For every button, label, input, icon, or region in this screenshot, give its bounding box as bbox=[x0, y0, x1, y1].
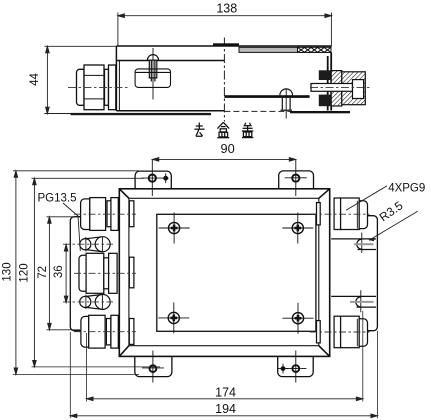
right base flange (section, thick) bbox=[290, 111, 350, 113]
dimension 194 bbox=[70, 331, 377, 418]
section cut line bbox=[223, 38, 225, 122]
lid section grey strip bbox=[239, 47, 331, 52]
plate screw (section) bbox=[280, 89, 293, 119]
hidden bottom edge (dashed) bbox=[224, 110, 290, 112]
box bottom line bbox=[116, 110, 224, 112]
box left wall inner bbox=[118, 61, 120, 111]
terminal block (side view) bbox=[135, 69, 170, 88]
char 去 bbox=[194, 123, 204, 137]
left bracket plate bbox=[70, 217, 81, 331]
dimension 36 bbox=[64, 245, 68, 303]
left gland centerline bbox=[68, 86, 130, 88]
screw bottom-left bbox=[158, 302, 189, 333]
dimension 174 bbox=[87, 311, 363, 402]
svg-text:4XPG9: 4XPG9 bbox=[388, 183, 425, 195]
char 盒 bbox=[217, 122, 229, 137]
lid screws (4) bbox=[158, 213, 313, 334]
dimension 138 bbox=[118, 13, 332, 47]
char 盖 bbox=[242, 123, 253, 138]
svg-text:130: 130 bbox=[2, 262, 14, 281]
mounting tabs bbox=[135, 160, 314, 383]
tab top-left bbox=[135, 171, 171, 189]
svg-text:194: 194 bbox=[215, 402, 236, 416]
wall bosses (dark section) bbox=[319, 70, 331, 80]
svg-text:138: 138 bbox=[216, 2, 237, 16]
screw top-right bbox=[282, 213, 313, 244]
dimension 120 bbox=[32, 178, 161, 367]
outer box outline bbox=[119, 189, 329, 357]
right cable gland (section) bbox=[311, 71, 365, 106]
left base flange (thick) bbox=[71, 113, 212, 115]
right wall of box (section) bbox=[328, 52, 332, 110]
tab top-right bbox=[279, 171, 314, 189]
dimension 72 bbox=[47, 217, 81, 330]
lid recess rectangle bbox=[157, 214, 316, 331]
keyhole slot upper-right bbox=[331, 233, 376, 254]
svg-text:44: 44 bbox=[29, 73, 41, 86]
right gland centerline bbox=[310, 86, 372, 88]
gland left-bottom (PG9) bbox=[81, 315, 134, 348]
lid dark segment bbox=[213, 43, 239, 45]
box left wall outer bbox=[115, 46, 117, 111]
right bracket plate bbox=[366, 216, 377, 331]
tab bottom-right bbox=[278, 356, 314, 376]
inner mounting plate (section) bbox=[224, 95, 309, 98]
box top edge bbox=[116, 45, 331, 47]
gland right-bottom (PG9) bbox=[317, 316, 368, 348]
left glands / keyholes bbox=[63, 198, 136, 348]
gland left-top (PG9) bbox=[81, 198, 134, 231]
dimension 90 bbox=[152, 158, 295, 162]
svg-text:72: 72 bbox=[37, 266, 49, 279]
corner diagonals bbox=[119, 189, 129, 199]
cover screw (side view) bbox=[147, 48, 158, 100]
gland left-middle (PG13.5) bbox=[79, 253, 134, 293]
keyhole slot lower-left bbox=[80, 294, 110, 309]
svg-text:174: 174 bbox=[215, 385, 236, 399]
keyhole slot lower-right bbox=[331, 290, 376, 312]
dimension 130 bbox=[13, 171, 139, 375]
svg-text:120: 120 bbox=[19, 263, 31, 282]
svg-text:36: 36 bbox=[53, 265, 65, 278]
screw top-left bbox=[159, 213, 190, 244]
svg-text:90: 90 bbox=[220, 141, 234, 156]
gland right-top (PG9) bbox=[317, 198, 368, 230]
lid section hatched part bbox=[298, 47, 332, 52]
keyhole slot upper-left bbox=[80, 237, 110, 252]
tab bottom-left bbox=[135, 356, 172, 376]
inner wall rectangle bbox=[129, 198, 319, 345]
text 去盒盖 (drawn strokes) bbox=[194, 122, 253, 137]
svg-text:PG13.5: PG13.5 bbox=[38, 193, 77, 205]
right glands / keyhole slots bbox=[310, 198, 376, 348]
screw bottom-right bbox=[283, 303, 314, 334]
lid bottom line bbox=[116, 60, 224, 62]
left cable gland (side view) bbox=[77, 65, 116, 110]
dimension 44 bbox=[44, 46, 116, 113]
